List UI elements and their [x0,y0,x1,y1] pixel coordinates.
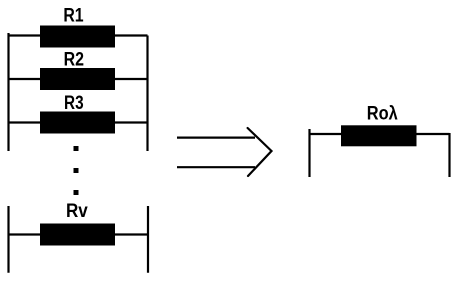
wire: right lead of Rv [115,233,148,235]
svg-text:R2: R2 [64,49,84,70]
wire: left rail of Rv group [7,206,9,273]
wire: right terminal stub of Rol [448,133,450,177]
wire: right lead of Rol [417,133,450,135]
arrow: bottom shaft line [177,166,255,168]
wire: left lead of R1 [9,34,41,36]
svg-text:R3: R3 [64,93,84,114]
wire: right lead of R2 [115,78,148,80]
ellipsis dot 2 [74,168,79,173]
ellipsis dot 1 [74,146,79,151]
svg-text:Roλ: Roλ [367,104,398,125]
wire: right rail of Rv group [147,206,149,273]
wire: left lead of R2 [9,78,41,80]
resistor Rv [40,224,115,246]
wire: left rail of parallel group [7,33,9,151]
wire: right rail of parallel group [146,36,148,152]
wire: right lead of R3 [115,121,148,123]
wire: right lead of R1 [115,34,148,36]
wire: left terminal stub of Rol [308,129,310,177]
resistor R1 [40,26,115,48]
resistor R2 [40,68,115,90]
svg-text:R1: R1 [63,6,84,27]
arrow: top shaft line [177,137,255,139]
resistor R3 [40,112,115,134]
ellipsis dot 3 [74,190,79,195]
wire: left lead of Rol [310,133,342,135]
wire: left lead of Rv [9,233,41,235]
resistor Rol equivalent [341,125,417,146]
arrow: chevron head [248,128,272,176]
wire: left lead of R3 [9,121,41,123]
svg-text:Rv: Rv [66,201,88,222]
